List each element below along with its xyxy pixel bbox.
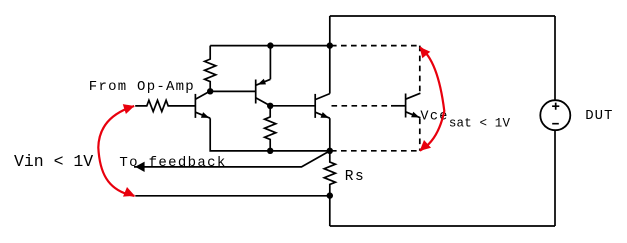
wire: Q2 collector node to Q3 base — [270, 105, 315, 107]
svg-text:Rs: Rs — [345, 169, 365, 185]
node: junction dot top net / Q3 collector drop — [327, 42, 333, 48]
svg-text:From Op-Amp: From Op-Amp — [89, 79, 195, 95]
node: junction dot Q1 collector / R1 / Q2 base — [207, 88, 213, 94]
dashed wire: Q4 collector vertical — [419, 46, 421, 93]
node: junction dot Rs bottom / sense wire — [327, 192, 333, 198]
svg-text:DUT: DUT — [585, 108, 613, 124]
dashed wire: base line to Q4 — [332, 105, 392, 107]
arrow: to feedback (black, pointing left) — [135, 162, 145, 172]
wire: Q1 emitter down and right to common rail — [210, 118, 330, 151]
red annotation arc: Vce span (right) — [420, 47, 445, 151]
wire: solid stub into Q4 base — [391, 105, 406, 107]
wire: Q3 emitter down to Rs node — [329, 118, 331, 151]
resistor R3 (vertical, Q3 base to rail) — [265, 106, 276, 151]
dashed wire: Q4 emitter vertical — [419, 119, 421, 151]
svg-text:Vin < 1V: Vin < 1V — [14, 152, 93, 171]
wire: Q2 emitter up to top net — [269, 46, 271, 80]
resistor R2 (series input, horizontal) with input wire to Q1 base — [135, 100, 195, 111]
node: junction dot Q3 emitter / Rs / feedback — [327, 148, 333, 154]
dashed wire: bottom (emitter) line back to Rs node — [331, 150, 420, 152]
wire: feedback tap with diagonal to Rs top node — [134, 151, 330, 167]
node: junction dot R3 bottom / common rail — [267, 148, 273, 154]
transistor Q2 (PNP, current mirror) — [256, 79, 271, 106]
wire: left drop from top rail to collector node — [329, 16, 331, 46]
wire: Q1 collector node to Q2 base — [210, 90, 256, 92]
wire: Q3 collector up to top node — [329, 46, 331, 94]
node: junction dot Q2 collector / R3 / Q3 base — [267, 103, 273, 109]
wire: right side of DUT loop — [554, 16, 556, 226]
resistor R1 (bias, vertical at left) — [205, 46, 216, 92]
dashed wire: top (collector) to external DUT transistor — [331, 45, 420, 47]
wire: upper horizontal net (collector supply) — [210, 45, 330, 47]
current source DUT (circle with + and -) — [540, 100, 570, 130]
resistor Rs (sense, vertical) — [324, 151, 335, 196]
transistor Q3 (NPN, driver) — [315, 94, 330, 119]
red annotation arc: Vin span (left) — [98, 104, 134, 197]
node: junction dot Q2 emitter / top net — [267, 42, 273, 48]
wire: top rail of DUT loop — [330, 15, 555, 17]
wire: bottom rail of DUT loop — [330, 225, 555, 227]
svg-text:sat < 1V: sat < 1V — [449, 117, 511, 131]
wire: bottom sense wire to red arrow — [135, 195, 329, 197]
transistor Q1 (NPN, input) — [195, 91, 210, 118]
svg-text:To feedback: To feedback — [119, 155, 226, 171]
wire: Rs bottom to loop bottom rail — [329, 196, 331, 226]
transistor Q4 (DUT internal, NPN) — [406, 93, 421, 118]
